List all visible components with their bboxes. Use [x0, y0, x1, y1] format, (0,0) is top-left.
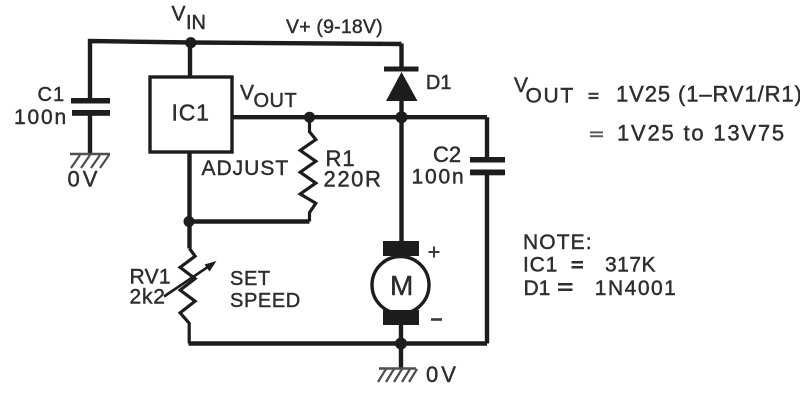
svg-text:1N4001: 1N4001	[595, 277, 678, 300]
svg-text:1V25 to 13V75: 1V25 to 13V75	[617, 121, 786, 146]
svg-text:220R: 220R	[324, 167, 383, 192]
svg-text:NOTE:: NOTE:	[523, 231, 593, 254]
svg-text:D1: D1	[524, 277, 551, 300]
svg-text:100n: 100n	[14, 106, 68, 129]
svg-text:0V: 0V	[426, 362, 459, 387]
svg-text:C2: C2	[433, 142, 461, 167]
svg-text:V+ (9-18V): V+ (9-18V)	[286, 16, 383, 38]
svg-text:M: M	[390, 270, 413, 301]
svg-text:C1: C1	[38, 84, 66, 106]
svg-text:IC1: IC1	[523, 254, 558, 277]
svg-text:IN: IN	[186, 12, 206, 34]
svg-text:IC1: IC1	[172, 100, 210, 126]
svg-text:ADJUST: ADJUST	[202, 157, 290, 180]
svg-text:SPEED: SPEED	[230, 290, 301, 312]
svg-text:100n: 100n	[412, 166, 466, 189]
svg-text:OUT: OUT	[254, 90, 298, 112]
svg-text:2k2: 2k2	[130, 286, 166, 309]
svg-text:OUT: OUT	[526, 84, 575, 107]
svg-text:0V: 0V	[68, 167, 101, 192]
svg-text:SET: SET	[230, 268, 271, 290]
svg-text:V: V	[240, 82, 254, 105]
svg-text:D1: D1	[426, 72, 452, 94]
svg-text:1V25 (1–RV1/R1): 1V25 (1–RV1/R1)	[616, 82, 800, 107]
svg-text:317K: 317K	[605, 254, 656, 277]
svg-text:V: V	[172, 3, 186, 26]
